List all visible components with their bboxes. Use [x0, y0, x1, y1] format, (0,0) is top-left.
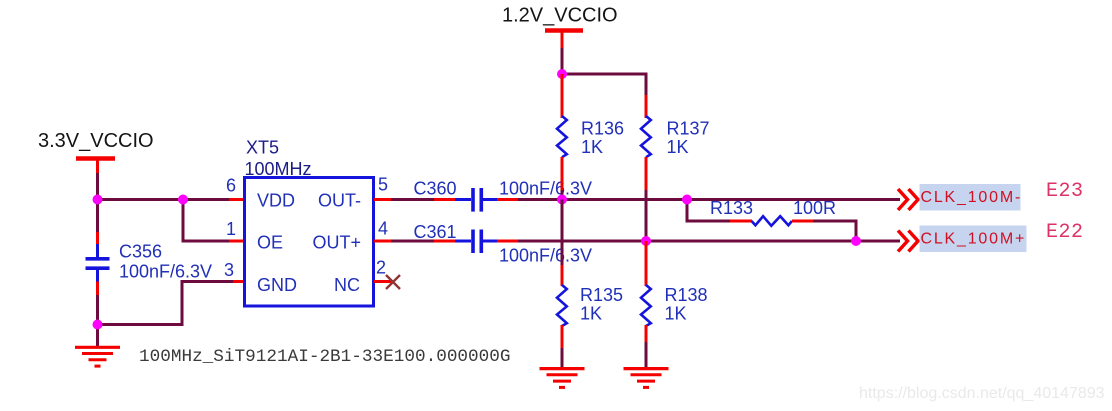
svg-text:XT5: XT5 [246, 138, 279, 158]
junction dot (562,199.5) [557, 195, 567, 205]
junction dot (646,241) [641, 236, 651, 246]
svg-text:E22: E22 [1046, 221, 1084, 244]
ground (R135) [540, 369, 585, 388]
pin 5 stub [374, 198, 392, 201]
capacitor C360 [455, 188, 498, 212]
svg-text:4: 4 [378, 219, 388, 239]
svg-text:NC: NC [334, 275, 360, 295]
junction dot (687,199.5) [682, 195, 692, 205]
junction dot (97.5,324.5) [93, 320, 103, 330]
wire R133 branch from OUT- [687, 200, 752, 222]
wire OE branch [183, 200, 244, 242]
ground (C356) [75, 347, 120, 366]
wire R138 to ground [645, 325, 648, 369]
svg-text:100nF/6.3V: 100nF/6.3V [499, 246, 592, 266]
svg-text:1: 1 [226, 219, 236, 239]
power symbol 3.3V_VCCIO [76, 156, 115, 161]
junction dot (97.5,199.5) [93, 195, 103, 205]
wire 3.3V to C356 [96, 200, 99, 246]
svg-text:100nF/6.3V: 100nF/6.3V [499, 179, 592, 199]
svg-text:OE: OE [257, 233, 283, 253]
junction dot (856,241) [851, 236, 861, 246]
wire C356 to ground junction [96, 282, 99, 348]
offpage connector CLK_100M+ [898, 231, 918, 252]
wire 1.2V to R136 [561, 74, 564, 118]
wire R137 down across OUT- to OUT+ [645, 157, 648, 241]
svg-text:100R: 100R [793, 198, 836, 218]
power symbol 1.2V_VCCIO [545, 31, 583, 75]
svg-text:1K: 1K [665, 304, 687, 324]
resistor R133 [752, 216, 792, 226]
svg-text:1K: 1K [580, 304, 602, 324]
svg-text:OUT-: OUT- [318, 191, 361, 211]
pin 2 stub NC [374, 280, 393, 283]
wire C360 to CLK_100M- connector [497, 198, 900, 201]
resistor R136 [557, 116, 567, 157]
svg-text:R135: R135 [580, 285, 623, 305]
resistor R138 [641, 285, 651, 326]
junction dot (183,199.5) [178, 195, 188, 205]
svg-text:5: 5 [378, 175, 388, 195]
resistor R137 [641, 116, 651, 157]
svg-text:R137: R137 [667, 119, 710, 139]
wire GND pin return [98, 282, 245, 325]
svg-text:6: 6 [226, 176, 236, 196]
svg-text:R136: R136 [581, 119, 624, 139]
svg-text:R133: R133 [710, 198, 753, 218]
wire OUT- to C360 [391, 198, 456, 201]
svg-text:2: 2 [376, 258, 386, 278]
svg-text:OUT+: OUT+ [312, 233, 361, 253]
svg-text:CLK_100M-: CLK_100M- [921, 189, 1023, 206]
wire C361 to CLK_100M+ connector [497, 240, 900, 243]
wire R137 column [645, 95, 648, 118]
wire 3.3V rail vertical [96, 159, 99, 200]
svg-text:VDD: VDD [257, 191, 295, 211]
wire OUT+ to C361 [391, 240, 456, 243]
svg-text:GND: GND [257, 275, 297, 295]
svg-text:CLK_100M+: CLK_100M+ [921, 231, 1027, 248]
wire R136 to OUT- line [561, 157, 564, 200]
junction dot (562,74) [557, 69, 567, 79]
wire 1.2V branch to R137 [562, 74, 646, 96]
wire VDD net horizontal [98, 198, 245, 201]
svg-text:1.2V_VCCIO: 1.2V_VCCIO [502, 5, 618, 27]
svg-text:3: 3 [224, 260, 234, 280]
wire R135 to ground [561, 325, 564, 369]
oscillator XT5 body [245, 178, 374, 307]
svg-text:100MHz_SiT9121AI-2B1-33E100.00: 100MHz_SiT9121AI-2B1-33E100.000000G [139, 347, 511, 367]
svg-text:C356: C356 [119, 242, 162, 262]
svg-text:100nF/6.3V: 100nF/6.3V [119, 262, 212, 282]
highlight box CLK_100M- [920, 184, 1021, 211]
wire R133 to OUT+ [792, 221, 856, 241]
resistor R135 [557, 285, 567, 326]
svg-text:C360: C360 [414, 179, 457, 199]
highlight box CLK_100M+ [920, 226, 1027, 253]
svg-text:1K: 1K [581, 137, 603, 157]
pin 4 stub [374, 240, 392, 243]
svg-text:https://blog.csdn.net/qq_40147: https://blog.csdn.net/qq_40147893 [859, 385, 1105, 402]
no-connect X on pin 2 [386, 275, 400, 289]
svg-text:1K: 1K [667, 137, 689, 157]
svg-text:100MHz: 100MHz [245, 159, 312, 179]
offpage connector CLK_100M- [898, 189, 918, 210]
capacitor C356 [86, 244, 110, 282]
svg-text:E23: E23 [1046, 180, 1084, 203]
svg-text:R138: R138 [665, 285, 708, 305]
capacitor C361 [455, 230, 498, 254]
svg-text:3.3V_VCCIO: 3.3V_VCCIO [38, 130, 154, 152]
ground (R138) [624, 369, 669, 388]
wire x562 crossing down to R135 [561, 200, 564, 287]
wire OUT+ down to R138 [645, 241, 648, 286]
svg-text:C361: C361 [414, 222, 457, 242]
